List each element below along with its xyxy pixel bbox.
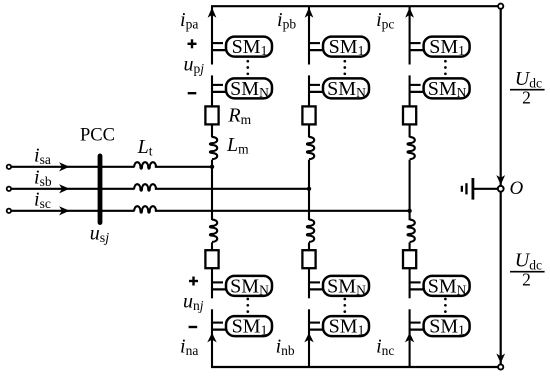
- wire lower arm phase c segment 2: [409, 268, 411, 298]
- wire lower arm phase b segment 1: [308, 242, 310, 250]
- submodule SMN lower arm phase c: [410, 281, 421, 283]
- svg-text:PCC: PCC: [80, 126, 115, 146]
- wire upper arm phase a segment 2: [211, 75, 213, 106]
- wire AC phase b right segment: [155, 188, 309, 190]
- label + lower arm voltage: [189, 280, 198, 282]
- wire upper arm phase a segment 3: [211, 124, 213, 137]
- submodule SM1 lower arm phase b: [309, 322, 320, 324]
- ellipsis upper arm phase a: [246, 60, 249, 63]
- inductor lower arm phase c: [408, 220, 415, 242]
- inductor lower arm phase a: [210, 220, 217, 242]
- current arrow i_na lower arm phase a: [207, 333, 216, 343]
- label - upper arm voltage: [188, 92, 197, 94]
- submodule SMN upper arm phase c: [410, 84, 421, 86]
- wire upper arm phase b segment 1: [308, 6, 310, 64]
- wire lower arm phase c segment 3: [409, 309, 411, 367]
- wire from node O to ground: [474, 188, 498, 190]
- wire upper arm phase c segment 2: [409, 75, 411, 106]
- wire AC phase a left segment: [11, 166, 134, 168]
- current arrow i_sc: [59, 206, 69, 215]
- resistor Rm upper arm phase c: [403, 106, 416, 124]
- node AC source phase b: [7, 187, 11, 191]
- wire upper arm phase c segment 3: [409, 124, 411, 137]
- ellipsis upper arm phase c: [444, 60, 447, 63]
- resistor lower arm phase a: [205, 250, 218, 268]
- inductor Lt phase c: [134, 206, 156, 213]
- current arrow on DC bus above DC- terminal: [496, 354, 505, 364]
- PCC bus bar: [98, 154, 103, 226]
- submodule SMN upper arm phase b: [309, 84, 320, 86]
- node DC- terminal: [498, 364, 503, 369]
- node AC source phase c: [7, 209, 11, 213]
- wire bottom DC rail: [211, 366, 498, 368]
- node DC+ terminal: [498, 4, 503, 9]
- node O: [498, 186, 504, 192]
- current arrow i_nb lower arm phase b: [304, 333, 313, 343]
- label + upper arm voltage: [188, 43, 197, 45]
- wire upper arm phase b segment 3: [308, 124, 310, 137]
- submodule SMN upper arm phase a: [212, 84, 223, 86]
- wire lower arm phase a segment 3: [211, 309, 213, 367]
- wire lower arm phase b segment 2: [308, 268, 310, 298]
- current arrow i_pa upper arm phase a: [208, 7, 217, 17]
- wire DC bus vertical: [500, 9, 502, 365]
- resistor Rm upper arm phase b: [302, 106, 315, 124]
- wire phase c midpoint: [409, 160, 411, 220]
- current arrow i_pc upper arm phase c: [405, 7, 414, 17]
- ground symbol: [472, 178, 475, 200]
- node phase b AC junction: [307, 187, 311, 191]
- wire top DC rail: [211, 5, 498, 7]
- inductor Lm upper arm phase b: [307, 137, 314, 159]
- ellipsis lower arm phase a: [246, 298, 249, 301]
- submodule SMN lower arm phase a: [212, 281, 223, 283]
- svg-text:2: 2: [522, 270, 531, 290]
- svg-text:O: O: [510, 178, 524, 199]
- ellipsis lower arm phase c: [444, 298, 447, 301]
- wire upper arm phase a segment 1: [211, 6, 213, 64]
- current arrow i_sa: [59, 162, 69, 171]
- inductor Lm upper arm phase c: [408, 137, 415, 159]
- ellipsis upper arm phase b: [343, 60, 346, 63]
- resistor Rm upper arm phase a: [205, 106, 218, 124]
- current arrow i_sb: [59, 184, 69, 193]
- inductor lower arm phase b: [307, 220, 314, 242]
- inductor Lt phase a: [134, 162, 156, 169]
- current arrow on DC bus above node O: [496, 175, 505, 185]
- wire lower arm phase a segment 1: [211, 242, 213, 250]
- wire upper arm phase c segment 1: [409, 6, 411, 64]
- ellipsis lower arm phase b: [343, 298, 346, 301]
- wire phase a midpoint: [211, 160, 213, 220]
- inductor Lm upper arm phase a: [210, 137, 217, 159]
- node phase c AC junction: [407, 209, 411, 213]
- wire lower arm phase c segment 1: [409, 242, 411, 250]
- current arrow i_nc lower arm phase c: [405, 333, 414, 343]
- wire upper arm phase b segment 2: [308, 75, 310, 106]
- submodule SM1 lower arm phase a: [212, 322, 223, 324]
- wire AC phase c right segment: [155, 210, 410, 212]
- wire AC phase c left segment: [11, 210, 134, 212]
- node phase a AC junction: [210, 165, 214, 169]
- inductor Lt phase b: [134, 184, 156, 191]
- submodule SMN lower arm phase b: [309, 281, 320, 283]
- svg-text:2: 2: [522, 88, 531, 108]
- label - lower arm voltage: [189, 326, 198, 328]
- wire lower arm phase a segment 2: [211, 268, 213, 298]
- wire AC phase b left segment: [11, 188, 134, 190]
- submodule SM1 upper arm phase b: [309, 42, 320, 44]
- wire phase b midpoint: [308, 160, 310, 220]
- resistor lower arm phase b: [302, 250, 315, 268]
- submodule SM1 lower arm phase c: [410, 322, 421, 324]
- submodule SM1 upper arm phase a: [212, 42, 223, 44]
- submodule SM1 upper arm phase c: [410, 42, 421, 44]
- wire AC phase a right segment: [155, 166, 212, 168]
- wire lower arm phase b segment 3: [308, 309, 310, 367]
- node AC source phase a: [7, 165, 11, 169]
- current arrow i_pb upper arm phase b: [305, 7, 314, 17]
- resistor lower arm phase c: [403, 250, 416, 268]
